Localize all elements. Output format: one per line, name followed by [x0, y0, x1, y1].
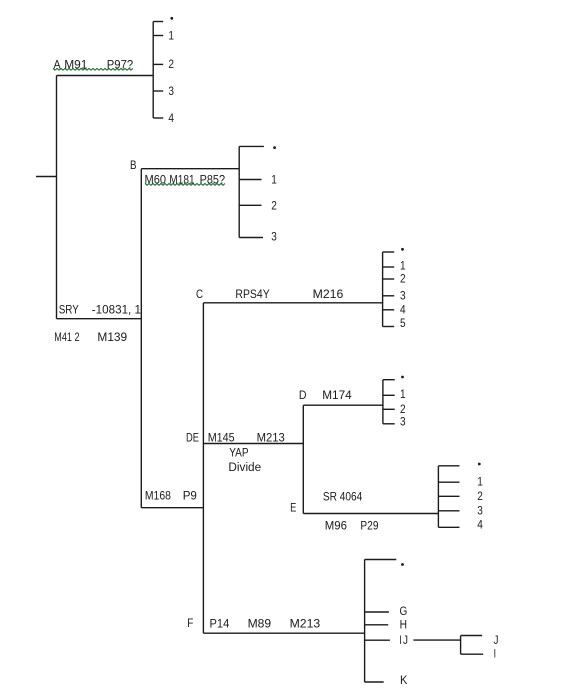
svg-text:2: 2: [168, 57, 174, 71]
bracket F tick star: [365, 559, 397, 561]
wire M168 horizontal: [141, 507, 203, 509]
svg-text:M168: M168: [145, 488, 171, 502]
bracket B tick 1: [239, 179, 261, 181]
bracket D label star: [401, 376, 404, 379]
bracket IJ vertical: [460, 636, 462, 655]
bracket A tick 1: [153, 35, 163, 37]
svg-text:F: F: [187, 616, 193, 630]
svg-text:1: 1: [400, 258, 406, 272]
svg-text:4: 4: [168, 111, 174, 125]
svg-text:3: 3: [271, 229, 277, 243]
bracket E tick 1: [438, 481, 459, 483]
bracket E tick 4: [438, 526, 459, 528]
bracket E tick 2: [438, 495, 459, 497]
wire branch E horizontal: [303, 513, 438, 515]
squiggle under A M91 P97?: [53, 68, 133, 70]
bracket E tick star: [438, 465, 459, 467]
svg-text:1: 1: [168, 28, 174, 42]
bracket C tick 2: [383, 278, 395, 280]
svg-text:K: K: [400, 673, 408, 687]
bracket C label star: [401, 248, 404, 251]
svg-text:I: I: [494, 647, 496, 661]
bracket B tick star: [239, 145, 264, 147]
bracket B vertical: [238, 146, 240, 237]
svg-text:H: H: [400, 618, 407, 632]
bracket D tick 2: [383, 408, 395, 410]
wire branch A horizontal: [57, 75, 154, 77]
svg-text:SRY: SRY: [59, 302, 79, 316]
wire spine3 vertical C to F: [202, 303, 204, 633]
bracket D tick 1: [383, 394, 395, 396]
svg-text:2: 2: [477, 489, 483, 503]
bracket C tick 3: [383, 295, 395, 297]
wire spine1 vertical A to SRY: [56, 76, 58, 319]
squiggle under M60 M181 P85?: [145, 184, 225, 186]
bracket D tick 3: [383, 423, 395, 425]
bracket A tick 2: [153, 63, 163, 65]
svg-text:C: C: [196, 287, 203, 301]
svg-text:5: 5: [400, 316, 406, 330]
bracket F tick H: [365, 624, 389, 626]
bracket A label star: [170, 17, 173, 20]
svg-text:J: J: [403, 633, 408, 647]
bracket C tick 5: [383, 326, 395, 328]
bracket B tick 3: [239, 237, 263, 239]
wire spine4 vertical D to E: [302, 405, 304, 513]
svg-text:3: 3: [400, 415, 406, 429]
svg-text:4: 4: [477, 517, 483, 531]
svg-text:Divide: Divide: [228, 460, 261, 474]
bracket A tick star: [153, 21, 163, 23]
wire spine2 vertical B to M168: [140, 169, 142, 508]
bracket D vertical: [382, 380, 384, 424]
svg-text:3: 3: [168, 84, 174, 98]
svg-text:J: J: [494, 633, 499, 647]
svg-text:3: 3: [477, 504, 483, 518]
svg-text:M89: M89: [248, 617, 272, 631]
bracket F tick IJ: [365, 639, 390, 641]
bracket E label star: [478, 463, 481, 466]
bracket E vertical: [437, 466, 439, 528]
svg-text:M96: M96: [325, 519, 347, 533]
svg-text:M216: M216: [313, 287, 344, 301]
bracket E tick 3: [438, 510, 459, 512]
svg-text:1: 1: [271, 173, 277, 187]
bracket C vertical: [382, 252, 384, 327]
svg-text:M174: M174: [322, 388, 352, 402]
svg-text:3: 3: [400, 289, 406, 303]
svg-text:G: G: [400, 604, 408, 618]
bracket IJ tick J: [461, 635, 483, 637]
svg-text:2: 2: [400, 272, 406, 286]
wire SRY horizontal: [57, 318, 142, 320]
bracket F tick G: [365, 611, 389, 613]
svg-text:M41 2: M41 2: [54, 330, 79, 344]
svg-text:M139: M139: [97, 330, 127, 344]
bracket F vertical: [364, 560, 366, 683]
bracket B label star: [273, 146, 276, 149]
bracket F label star: [401, 563, 404, 566]
wire branch C horizontal: [203, 302, 382, 304]
svg-text:-10831, 1: -10831, 1: [92, 302, 141, 316]
svg-text:E: E: [290, 501, 296, 515]
wire branch F horizontal: [203, 632, 364, 634]
svg-text:DE: DE: [186, 431, 199, 445]
bracket A tick 4: [153, 117, 163, 119]
svg-text:P14: P14: [210, 617, 230, 631]
svg-text:P9: P9: [183, 488, 197, 502]
wire branch DE horizontal: [203, 443, 303, 445]
bracket A vertical: [152, 22, 154, 119]
svg-text:4: 4: [400, 303, 406, 317]
bracket C tick 4: [383, 309, 395, 311]
svg-text:1: 1: [477, 474, 483, 488]
svg-text:M145: M145: [208, 431, 235, 445]
wire root tick: [36, 176, 57, 178]
svg-text:I: I: [399, 633, 401, 647]
svg-text:YAP: YAP: [229, 445, 248, 459]
bracket F tick K: [365, 681, 384, 683]
svg-text:2: 2: [271, 198, 277, 212]
svg-text:B: B: [130, 158, 137, 172]
wire branch D horizontal: [303, 404, 383, 406]
svg-text:1: 1: [400, 387, 406, 401]
bracket C tick star: [383, 251, 395, 253]
svg-text:D: D: [299, 388, 307, 402]
svg-text:M213: M213: [290, 617, 321, 631]
wire branch B horizontal: [141, 168, 239, 170]
bracket IJ tick I: [461, 653, 484, 655]
bracket C tick 1: [383, 266, 395, 268]
svg-text:M213: M213: [257, 431, 285, 445]
svg-text:P29: P29: [360, 519, 378, 533]
wire IJ horizontal: [413, 639, 460, 641]
svg-text:SR 4064: SR 4064: [323, 489, 363, 503]
bracket A tick 3: [153, 90, 163, 92]
bracket B tick 2: [239, 204, 261, 206]
svg-text:RPS4Y: RPS4Y: [235, 287, 269, 301]
bracket D tick star: [383, 379, 395, 381]
